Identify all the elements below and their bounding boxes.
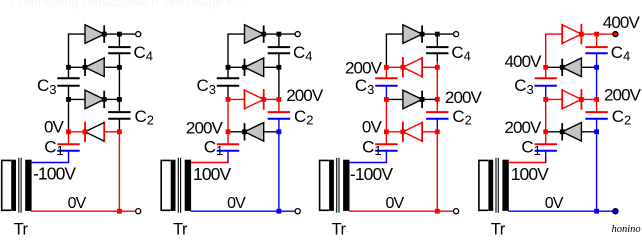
node junction at (119,67) (circuit 2)	[277, 65, 282, 70]
wire D4 row anode side (circuit 3)	[386, 33, 403, 35]
svg-text:200V: 200V	[445, 88, 483, 107]
wire left rail segment 3 (circuit 1)	[68, 86, 70, 100]
wire D3 row cathode side (circuit 2)	[228, 66, 245, 68]
capacitor C4 (circuit 4)	[585, 47, 607, 53]
wire left rail segment 2 (circuit 2)	[227, 67, 229, 78]
svg-text:C2: C2	[135, 107, 155, 128]
node at diode D3 cathode pin (circuit 2)	[242, 65, 247, 70]
wire D3 row cathode side (circuit 4)	[546, 66, 563, 68]
svg-text:200V: 200V	[186, 119, 224, 138]
svg-text:100V: 100V	[511, 164, 549, 184]
node junction at (119,211) (circuit 1)	[117, 209, 122, 214]
wire D2 row anode side (circuit 4)	[546, 98, 563, 100]
node junction at (119,99) (circuit 4)	[594, 97, 599, 102]
capacitor C4 (circuit 3)	[426, 47, 448, 53]
terminal top output (circuit 3)	[454, 32, 459, 37]
node at diode D2 cathode pin (circuit 4)	[579, 97, 584, 102]
wire right rail segment 3 (circuit 4)	[596, 67, 598, 99]
node junction at (68,99) (circuit 4)	[543, 97, 548, 102]
wire D2 row cathode side (circuit 1)	[104, 98, 119, 100]
terminal top output (circuit 4)	[613, 32, 618, 37]
wire right rail segment 6 (circuit 4)	[596, 132, 598, 211]
wire left rail segment 3 (circuit 2)	[227, 86, 229, 100]
node junction at (68,67) (circuit 2)	[226, 65, 231, 70]
wire D1 row cathode side (circuit 1)	[69, 131, 86, 133]
wire C1 bottom stub (circuit 4)	[545, 151, 547, 163]
wire D4 row anode side (circuit 2)	[227, 33, 244, 35]
wire left rail segment 2 (circuit 1)	[68, 67, 70, 78]
svg-text:-100V: -100V	[350, 164, 393, 184]
wire D3 row anode side (circuit 2)	[264, 66, 279, 68]
wire D2 row cathode side (circuit 2)	[264, 98, 279, 100]
node at diode D3 cathode pin (circuit 1)	[83, 65, 88, 70]
wire top output to terminal (circuit 1)	[119, 33, 135, 35]
svg-text:honino: honino	[612, 224, 641, 235]
wire 0V bottom rail (circuit 1)	[31, 210, 136, 212]
svg-text:C2: C2	[294, 107, 314, 128]
node junction at (119,34) (circuit 2)	[277, 32, 282, 37]
node at diode D4 cathode pin (circuit 4)	[579, 32, 584, 37]
node at diode D1 cathode pin (circuit 2)	[242, 129, 247, 134]
wire left rail segment 4 (circuit 2)	[227, 99, 229, 131]
node at diode D3 cathode pin (circuit 3)	[401, 65, 406, 70]
diode D1 (circuit 2)	[245, 123, 264, 142]
svg-text:C4: C4	[293, 43, 313, 64]
wire D3 row anode side (circuit 3)	[422, 66, 437, 68]
wire right rail segment 4 (circuit 2)	[278, 99, 280, 112]
wire D1 row cathode side (circuit 2)	[228, 131, 245, 133]
wire D1 row anode side (circuit 4)	[581, 131, 596, 133]
node junction at (119,132) (circuit 3)	[435, 129, 440, 134]
wire right rail segment 4 (circuit 3)	[436, 67, 438, 99]
wire D2 row anode side (circuit 1)	[69, 98, 86, 100]
wire D3 row cathode side (circuit 1)	[69, 66, 86, 68]
node at diode D3 cathode pin (circuit 4)	[560, 65, 565, 70]
wire top output to terminal (circuit 3)	[437, 33, 453, 35]
svg-text:Tr: Tr	[14, 220, 29, 237]
wire right rail segment 5 (circuit 4)	[596, 119, 598, 132]
svg-text:0V: 0V	[227, 195, 246, 212]
diode D3 (circuit 4)	[562, 58, 581, 77]
node at diode D2 cathode pin (circuit 2)	[261, 97, 266, 102]
wire right rail segment 1 (circuit 4)	[596, 34, 598, 47]
node junction at (119,211) (circuit 3)	[435, 209, 440, 214]
terminal bottom output (circuit 4)	[613, 209, 618, 214]
wire top output to terminal (circuit 2)	[279, 33, 295, 35]
node junction at (119,34) (circuit 1)	[117, 32, 122, 37]
transformer Tr (circuit 1)	[2, 158, 32, 213]
node junction at (119,132) (circuit 4)	[594, 129, 599, 134]
capacitor C3 (circuit 1)	[57, 78, 79, 86]
svg-text:0V: 0V	[68, 195, 87, 212]
wire C1 top stub (circuit 3)	[385, 132, 387, 144]
diode D1 (circuit 1)	[85, 122, 104, 143]
diode D4 (circuit 4)	[562, 24, 581, 45]
diode D4 (circuit 3)	[403, 25, 422, 44]
node at diode D1 cathode pin (circuit 1)	[83, 129, 88, 134]
wire D4 row anode side (circuit 1)	[68, 33, 85, 35]
svg-text:C3: C3	[355, 76, 375, 97]
svg-text:C1: C1	[204, 137, 224, 158]
wire right rail segment 1 (circuit 2)	[278, 34, 280, 47]
wire left rail segment 1 (circuit 4)	[545, 34, 547, 67]
wire D4 row cathode side (circuit 4)	[581, 33, 596, 35]
node junction at (68,132) (circuit 1)	[66, 129, 71, 134]
diode D2 (circuit 3)	[403, 90, 422, 109]
wire D4 row anode side (circuit 4)	[545, 33, 562, 35]
wire D2 row anode side (circuit 3)	[386, 98, 403, 100]
svg-text:C3: C3	[514, 76, 534, 97]
wire D3 row anode side (circuit 4)	[581, 66, 596, 68]
node junction at (119,211) (circuit 2)	[277, 209, 282, 214]
wire left rail segment 4 (circuit 4)	[545, 97, 547, 99]
capacitor C2 (circuit 4)	[585, 112, 607, 119]
svg-text:C4: C4	[611, 43, 631, 64]
svg-text:400V: 400V	[504, 52, 542, 71]
wire D4 row cathode side (circuit 1)	[104, 33, 119, 35]
node junction at (119,99) (circuit 1)	[117, 97, 122, 102]
svg-text:0V: 0V	[386, 195, 405, 212]
wire right rail segment 3 (circuit 3)	[436, 61, 438, 67]
wire secondary top to C1 bottom (circuit 1)	[31, 162, 69, 164]
wire D3 row anode side (circuit 1)	[104, 66, 119, 68]
svg-text:0V: 0V	[362, 118, 383, 137]
wire left rail segment 2 (circuit 3)	[385, 67, 387, 78]
node at diode D4 cathode pin (circuit 3)	[420, 32, 425, 37]
node junction at (119,67) (circuit 3)	[435, 65, 440, 70]
svg-text:Tr: Tr	[173, 220, 188, 237]
node at diode D4 cathode pin (circuit 1)	[102, 32, 107, 37]
node junction at (119,67) (circuit 1)	[117, 65, 122, 70]
diode D3 (circuit 2)	[245, 58, 264, 77]
node junction at (68,67) (circuit 1)	[66, 65, 71, 70]
svg-text:-100V: -100V	[33, 164, 76, 184]
wire D2 row cathode side (circuit 4)	[581, 98, 596, 100]
wire left rail segment 3 (circuit 3)	[385, 86, 387, 97]
diode D2 (circuit 2)	[245, 89, 264, 110]
wire right rail segment 6 (circuit 2)	[278, 132, 280, 211]
diode D1 (circuit 4)	[562, 123, 581, 142]
wire D2 row cathode side (circuit 3)	[422, 98, 437, 100]
terminal top output (circuit 2)	[295, 32, 300, 37]
wire right rail segment 5 (circuit 1)	[118, 119, 120, 132]
terminal top output (circuit 1)	[136, 32, 141, 37]
node junction at (68,99) (circuit 3)	[384, 97, 389, 102]
svg-text:C1: C1	[521, 137, 541, 158]
wire right rail segment 2 (circuit 3)	[436, 53, 438, 61]
capacitor C2 (circuit 1)	[108, 112, 130, 119]
wire secondary top to C1 bottom (circuit 2)	[191, 162, 229, 164]
wire C1 top stub (circuit 4)	[545, 132, 547, 144]
svg-text:200V: 200V	[604, 85, 642, 104]
wire C1 top stub (circuit 1)	[68, 132, 70, 144]
wire right rail segment 5 (circuit 3)	[436, 99, 438, 112]
node junction at (68,132) (circuit 2)	[226, 129, 231, 134]
wire left rail segment 4 (circuit 1)	[68, 99, 70, 131]
node junction at (68,99) (circuit 1)	[66, 97, 71, 102]
wire D1 row cathode side (circuit 3)	[386, 131, 403, 133]
terminal bottom output (circuit 3)	[454, 209, 459, 214]
svg-text:100V: 100V	[193, 164, 231, 184]
node junction at (68,67) (circuit 4)	[543, 65, 548, 70]
wire right rail segment 7 (circuit 3)	[436, 130, 438, 132]
svg-text:400V: 400V	[603, 13, 641, 32]
svg-text:C4: C4	[451, 43, 471, 64]
svg-text:C2: C2	[452, 107, 472, 128]
node junction at (119,34) (circuit 3)	[435, 32, 440, 37]
transformer Tr (circuit 4)	[479, 158, 509, 213]
wire right rail segment 2 (circuit 4)	[596, 53, 598, 67]
wire D1 row cathode side (circuit 4)	[546, 131, 563, 133]
svg-text:200V: 200V	[345, 59, 383, 78]
node junction at (119,99) (circuit 2)	[277, 97, 282, 102]
diode D2 (circuit 4)	[562, 89, 581, 110]
wire 0V bottom rail (circuit 4)	[508, 210, 613, 212]
node at diode D2 cathode pin (circuit 1)	[102, 97, 107, 102]
wire right rail segment 5 (circuit 2)	[278, 119, 280, 132]
svg-text:0V: 0V	[545, 195, 564, 212]
node at diode D4 cathode pin (circuit 2)	[261, 32, 266, 37]
node at diode D1 cathode pin (circuit 3)	[401, 129, 406, 134]
diode D3 (circuit 3)	[403, 57, 422, 78]
svg-text:0V: 0V	[44, 118, 65, 137]
diode D1 (circuit 3)	[403, 122, 422, 143]
diode D4 (circuit 1)	[85, 25, 104, 44]
wire right rail segment 3 (circuit 2)	[278, 67, 280, 99]
capacitor C3 (circuit 3)	[375, 78, 397, 86]
wire D4 row cathode side (circuit 2)	[264, 33, 279, 35]
svg-text:C3: C3	[197, 76, 217, 97]
diode D2 (circuit 1)	[85, 90, 104, 109]
node junction at (68,132) (circuit 4)	[543, 129, 548, 134]
transformer Tr (circuit 2)	[161, 158, 191, 213]
node junction at (68,132) (circuit 3)	[384, 129, 389, 134]
wire D1 row anode side (circuit 2)	[264, 131, 279, 133]
wire C1 top stub (circuit 2)	[227, 132, 229, 144]
wire right rail segment 4 (circuit 4)	[596, 99, 598, 112]
wire D4 row cathode side (circuit 3)	[422, 33, 437, 35]
svg-text:s connecting consecutive n. ne: s connecting consecutive n. next stage e…	[8, 0, 244, 9]
wire secondary top to C1 bottom (circuit 3)	[349, 162, 387, 164]
wire right rail segment 4 (circuit 1)	[118, 99, 120, 112]
wire 0V bottom rail (circuit 3)	[349, 210, 454, 212]
node junction at (119,99) (circuit 3)	[435, 97, 440, 102]
wire right rail segment 6 (circuit 3)	[436, 119, 438, 130]
terminal bottom output (circuit 2)	[295, 209, 300, 214]
wire D1 row anode side (circuit 1)	[104, 131, 119, 133]
svg-text:C1: C1	[44, 137, 64, 158]
diode D3 (circuit 1)	[85, 58, 104, 77]
diode D4 (circuit 2)	[245, 25, 264, 44]
svg-text:Tr: Tr	[491, 220, 506, 237]
wire right rail segment 6 (circuit 1)	[118, 132, 120, 211]
transformer Tr (circuit 3)	[320, 158, 350, 213]
capacitor C1 (circuit 1)	[57, 144, 79, 151]
svg-text:200V: 200V	[504, 118, 542, 137]
wire C1 bottom stub (circuit 2)	[227, 151, 229, 163]
capacitor C2 (circuit 2)	[268, 112, 290, 119]
svg-text:C3: C3	[37, 76, 57, 97]
svg-text:C1: C1	[362, 137, 382, 158]
wire right rail segment 1 (circuit 3)	[436, 34, 438, 47]
wire left rail segment 1 (circuit 2)	[227, 34, 229, 67]
wire D3 row cathode side (circuit 3)	[386, 66, 403, 68]
wire right rail segment 1 (circuit 1)	[118, 34, 120, 47]
svg-text:Tr: Tr	[332, 220, 347, 237]
wire right rail segment 8 (circuit 3)	[436, 132, 438, 211]
node at diode D2 cathode pin (circuit 3)	[420, 97, 425, 102]
wire left rail segment 5 (circuit 4)	[545, 99, 547, 131]
wire left rail segment 3 (circuit 4)	[545, 86, 547, 97]
wire secondary top to C1 bottom (circuit 4)	[508, 162, 546, 164]
node at diode D1 cathode pin (circuit 4)	[560, 129, 565, 134]
node junction at (119,132) (circuit 2)	[277, 129, 282, 134]
node junction at (68,67) (circuit 3)	[384, 65, 389, 70]
terminal bottom output (circuit 1)	[136, 209, 141, 214]
wire 0V bottom rail (circuit 2)	[191, 210, 296, 212]
wire top output to terminal (circuit 4)	[597, 33, 613, 35]
node junction at (119,67) (circuit 4)	[594, 65, 599, 70]
capacitor C3 (circuit 4)	[535, 78, 557, 86]
capacitor C4 (circuit 2)	[268, 47, 290, 53]
svg-text:200V: 200V	[286, 86, 324, 105]
node junction at (68,99) (circuit 2)	[226, 97, 231, 102]
capacitor C4 (circuit 1)	[108, 47, 130, 53]
node junction at (119,132) (circuit 1)	[117, 129, 122, 134]
wire D2 row anode side (circuit 2)	[228, 98, 245, 100]
wire right rail segment 2 (circuit 2)	[278, 53, 280, 67]
wire C1 bottom stub (circuit 3)	[385, 151, 387, 163]
capacitor C1 (circuit 4)	[535, 144, 557, 151]
svg-text:C2: C2	[612, 107, 632, 128]
wire left rail segment 5 (circuit 3)	[385, 99, 387, 131]
node junction at (119,211) (circuit 4)	[594, 209, 599, 214]
wire right rail segment 3 (circuit 1)	[118, 67, 120, 99]
wire left rail segment 1 (circuit 3)	[385, 34, 387, 67]
wire C1 bottom stub (circuit 1)	[68, 151, 70, 163]
capacitor C2 (circuit 3)	[426, 112, 448, 119]
wire D1 row anode side (circuit 3)	[422, 131, 437, 133]
wire left rail segment 2 (circuit 4)	[545, 67, 547, 78]
capacitor C1 (circuit 3)	[375, 144, 397, 151]
capacitor C1 (circuit 2)	[217, 144, 239, 151]
wire left rail segment 4 (circuit 3)	[385, 97, 387, 99]
svg-text:C4: C4	[134, 43, 154, 64]
wire left rail segment 1 (circuit 1)	[68, 34, 70, 67]
node junction at (119,34) (circuit 4)	[594, 32, 599, 37]
wire right rail segment 2 (circuit 1)	[118, 53, 120, 67]
capacitor C3 (circuit 2)	[217, 78, 239, 86]
